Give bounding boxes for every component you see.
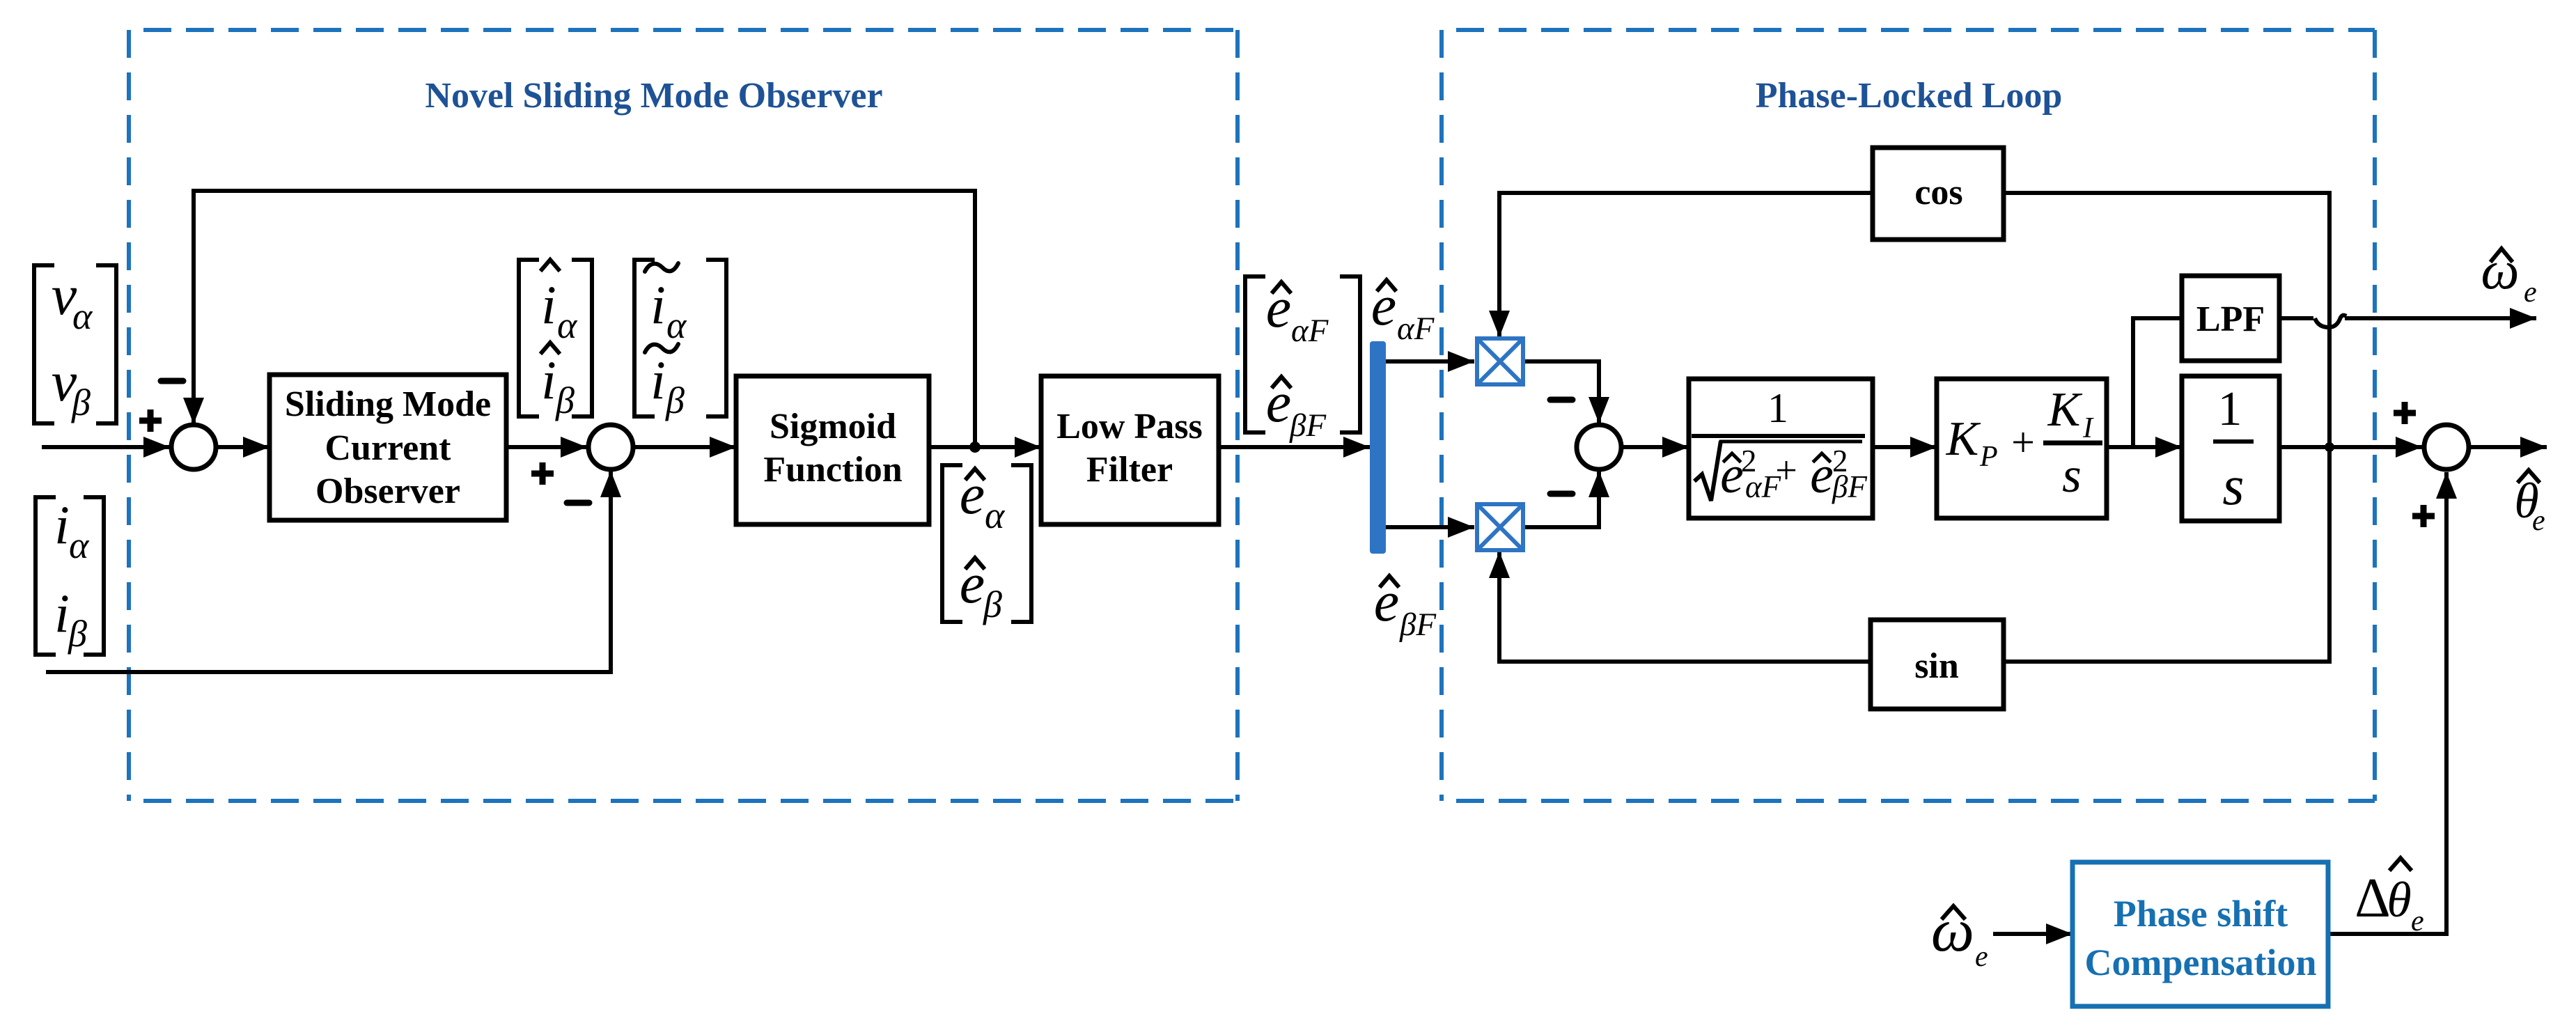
svg-text:Compensation: Compensation <box>2084 942 2316 983</box>
svg-text:i: i <box>541 274 556 335</box>
svg-text:I: I <box>2082 412 2094 444</box>
svg-text:e: e <box>2411 905 2424 937</box>
svg-text:αF: αF <box>1291 313 1329 349</box>
svg-text:P: P <box>1979 441 1998 473</box>
svg-text:β: β <box>983 584 1002 625</box>
svg-text:Novel Sliding Mode Observer: Novel Sliding Mode Observer <box>425 76 882 116</box>
svg-text:i: i <box>650 274 666 335</box>
svg-text:1: 1 <box>1767 385 1788 431</box>
svg-text:cos: cos <box>1914 173 1962 212</box>
svg-text:Phase-Locked Loop: Phase-Locked Loop <box>1756 76 2063 116</box>
svg-text:+: + <box>2011 419 2035 465</box>
svg-text:α: α <box>666 304 687 346</box>
svg-text:Phase shift: Phase shift <box>2114 893 2288 935</box>
svg-text:1: 1 <box>2218 382 2242 436</box>
svg-text:K: K <box>1946 412 1981 466</box>
svg-text:θ: θ <box>2387 872 2411 928</box>
svg-text:i: i <box>54 494 70 555</box>
svg-text:α: α <box>69 524 90 566</box>
svg-text:Sigmoid: Sigmoid <box>770 407 896 446</box>
svg-text:βF: βF <box>1289 407 1327 444</box>
svg-text:s: s <box>2062 448 2082 503</box>
svg-text:β: β <box>555 380 575 421</box>
svg-text:Δ: Δ <box>2355 868 2390 929</box>
svg-text:i: i <box>54 583 70 643</box>
svg-text:α: α <box>557 304 578 346</box>
svg-text:K: K <box>2047 383 2083 437</box>
svg-text:Sliding Mode: Sliding Mode <box>285 384 491 424</box>
svg-text:LPF: LPF <box>2196 299 2265 339</box>
svg-text:βF: βF <box>1399 607 1437 643</box>
svg-text:β: β <box>68 613 87 655</box>
svg-text:e: e <box>2532 505 2545 537</box>
svg-text:α: α <box>72 295 93 337</box>
svg-text:Function: Function <box>763 450 902 490</box>
svg-text:s: s <box>2222 455 2244 517</box>
svg-text:Observer: Observer <box>315 471 460 511</box>
svg-text:αF: αF <box>1397 311 1435 347</box>
svg-text:e: e <box>2524 276 2537 309</box>
svg-text:Filter: Filter <box>1086 450 1173 490</box>
svg-text:α: α <box>985 494 1006 536</box>
svg-text:sin: sin <box>1914 646 1959 686</box>
svg-text:Low Pass: Low Pass <box>1056 407 1202 446</box>
svg-text:+: + <box>1775 449 1797 492</box>
svg-text:i: i <box>650 350 666 410</box>
svg-text:i: i <box>541 350 556 410</box>
svg-text:β: β <box>665 380 685 421</box>
svg-text:βF: βF <box>1832 469 1867 504</box>
svg-text:Current: Current <box>325 428 451 468</box>
svg-text:β: β <box>71 382 91 423</box>
svg-text:e: e <box>1975 941 1988 973</box>
